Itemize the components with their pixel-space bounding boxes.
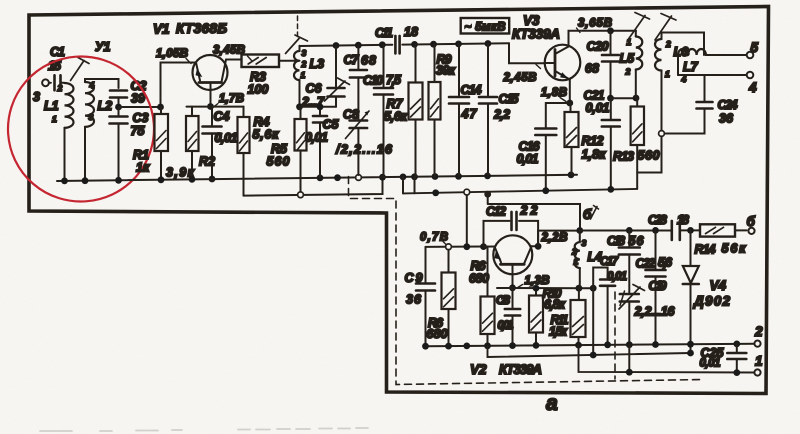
terminal 5 [747,52,754,59]
resistor R12 1,8k [570,103,572,112]
coil L7 [677,55,679,75]
capacitor C18 56 [626,227,633,234]
feedback loop with capacitor C12 22 [484,221,539,247]
diode V4 D902 [687,227,694,234]
resistor R5 560 [300,107,302,119]
capacitor C11 18 in series in bus [395,36,399,54]
V1 emitter to node [210,83,212,107]
wire R3 to L3 [279,60,300,62]
emitter node rail [187,106,244,108]
transistor V3 [545,45,581,81]
resistor R10 6,8k [535,288,537,295]
junction L6 bottom / C24 [659,131,665,137]
feed line from line2 down to L4 node [488,195,580,231]
wire to terminal 2 [754,341,760,347]
capacitor C22 5,6 [652,227,659,234]
AGC return line 2 [403,189,637,194]
transistor V2 [480,243,487,250]
shield dashed box of bottom band [349,177,704,385]
resistor R14 56k [700,224,735,236]
coil L6 with tuning arrow [661,34,663,40]
collector wire to 3,65V rail [569,31,637,47]
wire C1 to L1 [61,82,65,84]
transistor V1 [193,55,228,90]
link C18 branch to line3 [628,345,630,373]
wire L2 top to C2 [85,79,119,88]
red highlight ellipse [3,52,159,207]
capacitor C17 0,01 [593,268,607,289]
tuning arrow with dashed link above L3 [297,16,299,40]
open junction C8 to bus [356,175,362,181]
capacitor C7 68 [357,45,359,68]
capacitor C5 0,01 [319,107,321,115]
capacitor C10 7,5 [383,45,385,87]
capacitor C24 36 [704,75,706,101]
capacitor C3 75 [118,107,120,115]
capacitor C4 0,01 [211,107,213,125]
wires to terminals 5 and 4 [706,54,747,56]
capacitor C9 36 [425,247,427,282]
capacitor C14 47 [458,44,460,96]
capacitor C13 0,01 [512,288,514,308]
measurement label ~5mkV [461,18,510,34]
resistor R6 680 (lower) [448,250,450,273]
bus2 inner return [488,346,691,357]
terminal 3 antenna input [42,79,49,86]
return line B with R5 junction [244,177,383,195]
capacitor C2 39 [110,91,127,98]
resistor R2 3,9k [191,107,193,116]
terminal 6 [748,228,754,234]
V2 collector node 2,2V [538,231,580,247]
coil L5 with tuning arrow [635,31,637,37]
node C20/C21/L5/R13 [607,95,614,102]
capacitor C16 0,01 [546,103,570,127]
wire line2 to 0,7V node [466,192,468,247]
resistor R11 1,5k [576,285,583,292]
resistor R4 5,6k [243,107,245,117]
V3 emitter node 1,8V [569,80,571,104]
capacitor C23 18 in series [672,221,680,240]
line3 to terminal 1 [579,345,757,372]
resistor R6 680 (base bias) [487,247,489,297]
coil L1 [65,83,74,128]
wire base node up to V1 base [161,63,197,108]
emitter rail [497,287,593,289]
resistor R13 560 [636,98,638,107]
coil L4 [576,227,583,234]
capacitor C15 2,2 [487,44,489,96]
ground bus [57,175,577,181]
node: C2/C3/R1 base node [115,104,122,111]
variable capacitor C8 2,2...16 [350,121,368,129]
coil L3 [299,46,301,51]
collector rail 2,2V to output [580,229,700,231]
main top bus [300,43,510,46]
trimmer capacitor C19 2,2...16 [620,294,639,302]
capacitor C25 0,01 [736,344,738,352]
coil L2 [85,82,94,127]
L6 bottom return to R13 stem [637,136,661,172]
capacitor C21 0,01 [610,98,612,118]
trimmer capacitor C6 2...7 [335,46,337,87]
C17 junction vertical to bus2 [590,285,597,292]
shield dashed divider [614,292,616,379]
wire V1 collector to R3 [226,59,242,61]
bottom band ground bus1 [426,344,757,347]
capacitor C20 68 [610,31,612,54]
capacitor C1 15 [49,82,51,84]
variable coupling arrow between L1 and L2 [71,58,90,81]
terminal 4 [747,72,754,79]
resistor R3 100 [242,55,280,68]
resistor R1 1k [160,107,162,114]
resistor R7 5,6k [415,44,417,82]
wire L6 top to terminal 5 line [662,33,705,56]
V2 emitter node 1,3V [512,264,514,288]
resistor R9 39k [434,44,436,82]
node L3 bottom / C6 / C5 / R5 [296,103,303,110]
0,7V base node rail [426,246,484,248]
page artifacts along bottom edge [40,428,368,431]
